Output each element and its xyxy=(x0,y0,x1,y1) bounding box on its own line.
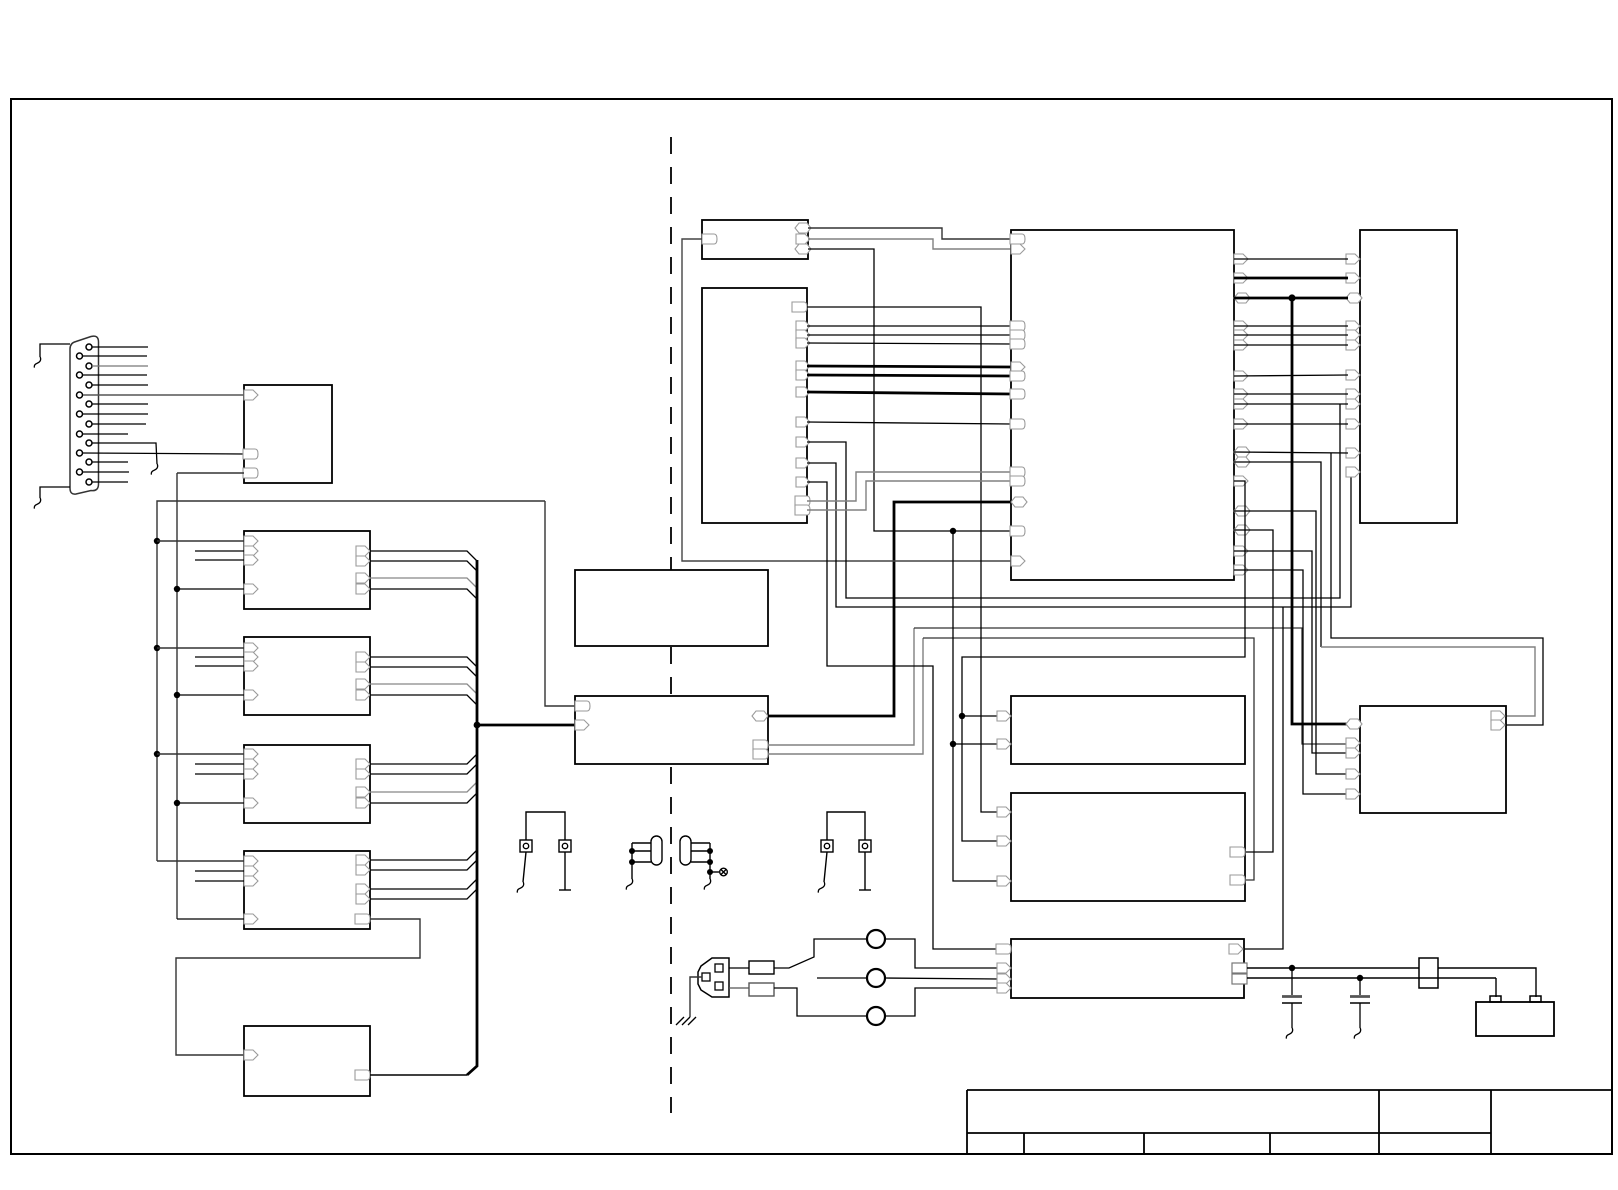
crystal left half xyxy=(632,836,662,879)
rail A corner and vertical x=157 xyxy=(157,501,545,861)
wire IC481 down-left to RM pins xyxy=(962,481,1245,841)
wire IC462 to 1321 xyxy=(1234,462,1321,647)
stub D4.3 xyxy=(195,880,244,882)
wire PSU out+ xyxy=(1247,967,1419,969)
PSU pins xyxy=(996,944,1011,954)
wire railB end to D4.4 xyxy=(177,918,244,920)
top box pins xyxy=(702,234,717,244)
wire railB-D1.4 xyxy=(177,588,244,590)
wire D4 out2 xyxy=(370,860,477,870)
crystal right half xyxy=(680,836,727,879)
node rail B to D1 xyxy=(174,586,180,592)
wire pin6 to U1 xyxy=(83,394,244,396)
switch contact circle bottom xyxy=(867,1007,885,1025)
wire pin3 xyxy=(92,365,148,367)
wire D4 out3 xyxy=(370,879,477,889)
node cap1 xyxy=(1289,965,1295,971)
wire railA-D1.1 xyxy=(157,540,244,542)
driver box D1 xyxy=(244,531,370,609)
wire IC326-RB xyxy=(1234,325,1348,327)
main IC box xyxy=(1011,230,1234,580)
interface box U1 xyxy=(244,385,332,483)
right box pins xyxy=(1346,254,1362,477)
right connector box xyxy=(1360,230,1457,523)
wire 638 across to RM2 right pin xyxy=(923,638,1254,880)
rail B vertical x=177 xyxy=(176,473,178,919)
wire railB-D3.4 xyxy=(177,802,244,804)
D3 pins xyxy=(244,749,370,808)
gray wire module 754 going right-up xyxy=(768,638,923,754)
U1 pin in 473 xyxy=(243,468,258,478)
wire middle contact to PSU 978 xyxy=(884,978,999,979)
test jack pair A xyxy=(520,812,571,890)
wire pin9 xyxy=(92,423,146,425)
wire pin11 with break xyxy=(92,443,157,464)
gray wire tall 510 to IC 481 xyxy=(807,481,1011,510)
earth ground symbol xyxy=(676,1017,696,1025)
power supply box xyxy=(1011,939,1244,998)
bus junction node xyxy=(474,722,481,729)
wire tall 343 to IC xyxy=(807,343,1011,344)
wire IC259-RB xyxy=(1234,258,1348,260)
wire PSU out- xyxy=(1247,977,1496,979)
switch middle wire xyxy=(817,977,868,979)
wire top box out3 down to IC 531 xyxy=(808,249,1011,531)
stub D3.3 xyxy=(195,773,244,775)
wire pin12 to U1 xyxy=(83,453,244,454)
wire pin4 xyxy=(83,374,147,376)
fuse F3 xyxy=(1419,958,1438,988)
thick wire IC278-RB xyxy=(1234,277,1348,280)
wire D1 out1 xyxy=(370,551,477,561)
wire D1 out4 xyxy=(370,589,477,599)
wire IC345-RB xyxy=(1234,344,1348,346)
connector J1 pin circles xyxy=(77,344,93,485)
wire IC511 to box2R 774 xyxy=(1234,511,1347,774)
wire railA end to D4.1 xyxy=(157,860,244,862)
harness bus (thick) xyxy=(467,560,477,1075)
wire IC530 to RM2 right 852 xyxy=(1234,530,1273,852)
wire D2 out3 xyxy=(370,684,477,694)
wire pin15 xyxy=(92,481,128,483)
RM1 pins xyxy=(997,711,1011,721)
branch to RM1 744 xyxy=(953,743,998,745)
shield wire bottom with break xyxy=(40,487,70,498)
wire IC335-RB xyxy=(1234,334,1348,336)
wire railB-D2.4 xyxy=(177,694,244,696)
wire D1 out2 xyxy=(370,561,477,571)
thick drop x=1292 to box2R pin 724 xyxy=(1292,298,1347,724)
RM2 pins xyxy=(997,807,1011,817)
rail A drop to module xyxy=(545,501,575,706)
capacitor C1 xyxy=(1291,968,1293,995)
wire pin10 xyxy=(83,433,128,435)
wire railA-D3.1 xyxy=(157,753,244,755)
wire tall 307 to RM2 812 xyxy=(807,307,998,812)
stub D2.2 xyxy=(195,656,244,658)
wire top contact to PSU 968 xyxy=(884,939,999,968)
stub D1.2 xyxy=(195,550,244,552)
driver box D3 xyxy=(244,745,370,823)
wire D3 out4 xyxy=(370,793,477,803)
stub D1.3 xyxy=(195,559,244,561)
wire pin2 xyxy=(83,355,147,357)
fuse F1 xyxy=(749,961,774,974)
dashed separation line xyxy=(670,137,672,1113)
drop x=1331 to loop 638 xyxy=(1331,453,1543,725)
wire railA-D2.1 xyxy=(157,647,244,649)
driver box D4 xyxy=(244,851,370,929)
wire D4 aux loop to bottom box xyxy=(176,919,420,1055)
wire D4 out1 xyxy=(370,850,477,860)
wire IC570 to box2R 794 xyxy=(1234,570,1347,794)
wire pin13 xyxy=(92,461,128,463)
wire IC376-RB xyxy=(1234,375,1348,376)
wire D2 out2 xyxy=(370,667,477,677)
D2 pins xyxy=(244,643,370,700)
U1 pin in 454 xyxy=(243,449,258,459)
wire D3 out3 xyxy=(370,782,477,792)
wire U1.473 to rail B xyxy=(177,472,244,474)
title block xyxy=(967,1090,1612,1153)
IC right pins xyxy=(1234,254,1250,575)
capacitor C2 xyxy=(1359,978,1361,995)
top small box xyxy=(702,220,808,259)
gray loop 647 to box2R 716 xyxy=(1321,647,1535,716)
wire tall 422 to IC 424 xyxy=(807,422,1011,424)
stub D3.2 xyxy=(195,763,244,765)
wire IC424-RB xyxy=(1234,423,1348,425)
earth wire to ground xyxy=(690,977,702,1017)
node 953/531 xyxy=(950,528,956,534)
thick wire tall 366 to IC xyxy=(807,366,1011,367)
wire pin14 xyxy=(83,471,129,473)
wire D4 out4 xyxy=(370,889,477,899)
switch bottom route xyxy=(774,988,868,1016)
thick wire IC298-RB xyxy=(1234,297,1348,300)
node rail A to D1 xyxy=(154,538,160,544)
wire F3 to battery + xyxy=(1438,968,1536,997)
wire top box out1 to IC 239 xyxy=(808,228,1011,239)
stub D4.2 xyxy=(195,870,244,872)
wire D3 out1 xyxy=(370,754,477,764)
mains plug xyxy=(698,958,729,997)
switch contact circle top xyxy=(867,930,885,948)
wire IC394-RB xyxy=(1234,393,1348,395)
stub D2.3 xyxy=(195,665,244,667)
wire 628 across xyxy=(914,628,1347,744)
wire IC551 to box2R 753 xyxy=(1234,551,1347,753)
wire D1 out3 xyxy=(370,578,477,588)
bottom box pins xyxy=(244,1050,258,1060)
switch contact circle middle xyxy=(867,969,885,987)
shield wire top with break xyxy=(40,344,70,357)
wire PSU right 949 up xyxy=(1244,607,1283,949)
RM box 1 xyxy=(1011,696,1245,764)
node thick 1292/298 xyxy=(1288,294,1295,301)
thick wire tall 375 to IC xyxy=(807,375,1011,376)
switch pole top with blade xyxy=(774,939,868,968)
tall box pins xyxy=(792,302,810,515)
tall box xyxy=(702,288,807,523)
fuse F2 xyxy=(749,983,774,996)
wire down x=953 to RM boxes xyxy=(953,531,998,881)
node rail A to D2 xyxy=(154,645,160,651)
D4 pins xyxy=(244,855,370,924)
wire tall 463 net (down under IC) xyxy=(807,463,1351,607)
wire tall 335 to IC xyxy=(807,334,1011,336)
wire pin8 xyxy=(83,413,148,415)
connector J1 body (DB15) xyxy=(70,336,99,494)
gray wire top box out2 to IC 249 xyxy=(808,239,1011,249)
wire pin5 xyxy=(92,384,148,386)
node rail A to D3 xyxy=(154,751,160,757)
wire bottom contact to PSU 988 xyxy=(884,988,999,1016)
node 953/744 xyxy=(950,741,956,747)
node 962/716 xyxy=(959,713,965,719)
RM box 2 xyxy=(1011,793,1245,901)
node cap2 xyxy=(1357,975,1363,981)
test jack pair B xyxy=(821,812,871,890)
D1 pins xyxy=(244,536,370,594)
wire plug to F2 xyxy=(729,987,749,989)
battery block xyxy=(1476,1002,1554,1036)
wire tall 482 to power supply 949 xyxy=(807,482,999,949)
thick wire bus to module xyxy=(477,724,575,727)
wire D3 out2 xyxy=(370,764,477,774)
controller module M1 xyxy=(575,696,768,764)
wire plug to F1 xyxy=(729,967,749,969)
wire D2 out1 xyxy=(370,657,477,667)
node rail B to D2 xyxy=(174,692,180,698)
gray wire module 745 going right-up xyxy=(768,628,914,745)
wire IC404-RB with branch xyxy=(1234,403,1348,405)
wire top box left pin to IC 561 (down left side) xyxy=(682,239,1011,561)
module pins xyxy=(575,701,590,711)
box2R pins xyxy=(1346,719,1362,729)
wire tall 326 to IC xyxy=(807,325,1011,327)
node rail B to D3 xyxy=(174,800,180,806)
thick wire tall 392 to IC xyxy=(807,392,1011,394)
branch to RM1 716 xyxy=(962,715,998,717)
IC left pins xyxy=(1010,234,1027,566)
gray wire tall 501 to IC 472 xyxy=(807,472,1011,501)
wire tall 442 net (down under IC) xyxy=(807,404,1340,598)
wire D2 out4 xyxy=(370,695,477,705)
driver box D2 xyxy=(244,637,370,715)
bottom interface box xyxy=(244,1026,370,1096)
box2R display driver xyxy=(1360,706,1506,813)
wire to battery - xyxy=(1495,978,1497,997)
thick wire module to IC pin 502 xyxy=(768,502,1011,716)
U1 pins xyxy=(244,390,258,400)
spare box (empty) xyxy=(575,570,768,646)
wire bottom box to bus end xyxy=(370,1074,467,1076)
wire pin7 xyxy=(92,403,148,405)
wire IC452-RB453 xyxy=(1234,452,1348,453)
wire pin1 xyxy=(92,346,148,348)
